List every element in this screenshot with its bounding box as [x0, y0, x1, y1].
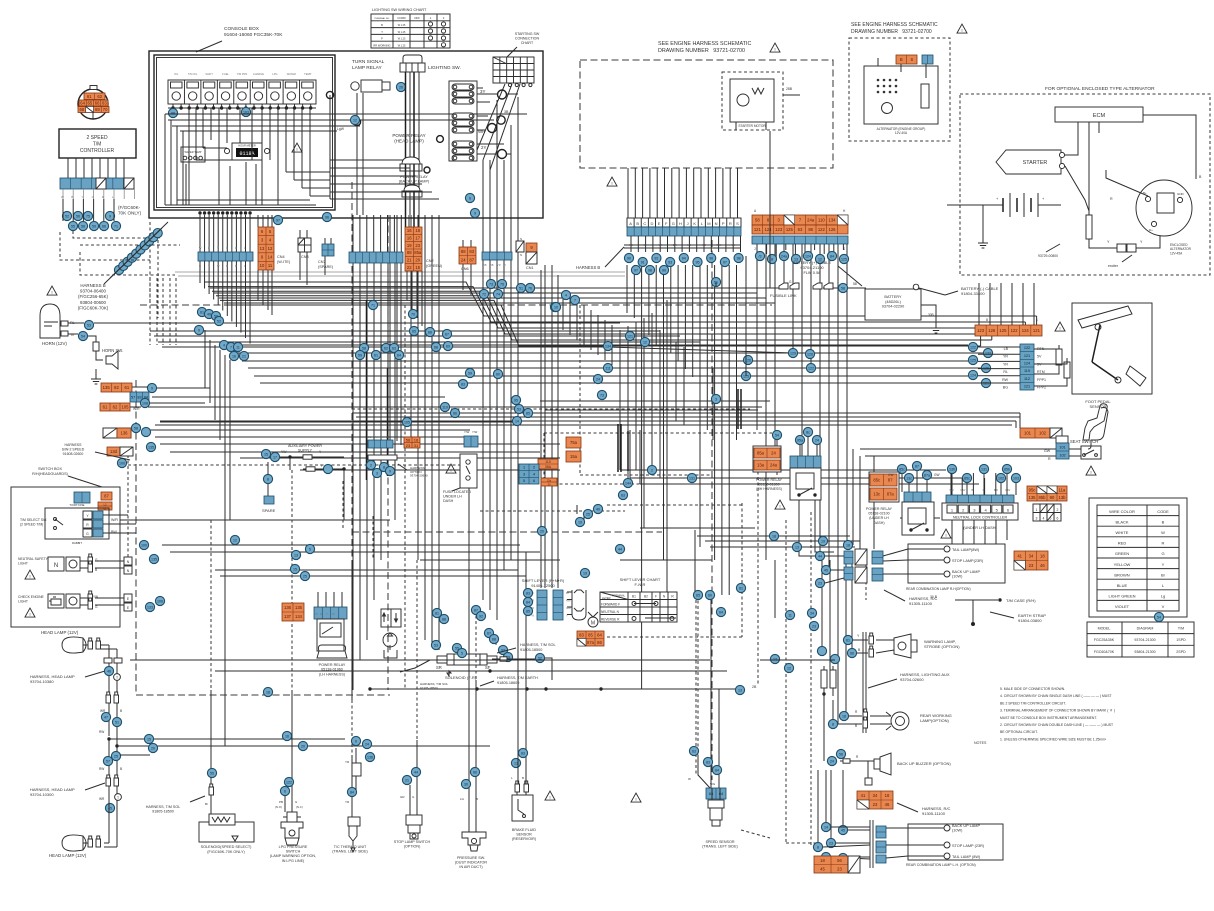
svg-text:2SPD: 2SPD — [1176, 650, 1186, 654]
svg-text:75: 75 — [500, 282, 504, 286]
svg-text:16: 16 — [407, 228, 412, 233]
svg-text:SF: SF — [485, 665, 491, 670]
svg-text:T: T — [116, 676, 118, 680]
svg-text:119: 119 — [442, 405, 448, 409]
svg-text:!: ! — [961, 28, 962, 33]
svg-text:8: 8 — [986, 318, 988, 322]
svg-text:B: B — [522, 776, 524, 780]
svg-text:95a: 95a — [797, 438, 803, 442]
svg-text:96: 96 — [709, 256, 713, 260]
harness RC label 1 — [884, 590, 938, 606]
svg-text:83: 83 — [469, 249, 474, 254]
svg-text:E: E — [658, 221, 661, 226]
power relay LH2 — [866, 492, 934, 535]
svg-text:9: 9 — [198, 328, 200, 332]
svg-text:30B: 30B — [928, 313, 934, 317]
hydraulic valve — [381, 609, 401, 658]
svg-text:93704-10300: 93704-10300 — [30, 792, 54, 797]
svg-text:25: 25 — [114, 754, 118, 758]
neutral safety light — [18, 554, 132, 579]
svg-text:108: 108 — [142, 401, 148, 405]
svg-text:(2 SPEED T/M): (2 SPEED T/M) — [20, 522, 43, 526]
svg-text:24: 24 — [461, 257, 466, 262]
svg-text:87a: 87a — [924, 473, 930, 477]
svg-text:T/M PRS: T/M PRS — [237, 72, 248, 76]
power relay RH orange — [753, 446, 781, 472]
svg-text:10: 10 — [260, 263, 265, 268]
svg-text:CONSOLE BOX: CONSOLE BOX — [224, 26, 260, 32]
svg-text:N: N — [54, 563, 58, 569]
head lamp wires top — [100, 645, 122, 745]
svg-text:18: 18 — [885, 793, 890, 798]
svg-text:91: 91 — [641, 260, 645, 264]
svg-text:24: 24 — [596, 377, 600, 381]
svg-text:87: 87 — [474, 608, 478, 612]
option strip — [366, 435, 397, 478]
svg-text:85c: 85c — [964, 476, 970, 480]
ECM box — [1055, 107, 1143, 122]
svg-text:58: 58 — [853, 282, 857, 286]
svg-text:!: ! — [611, 181, 612, 186]
svg-text:B: B — [900, 57, 903, 62]
svg-text:14: 14 — [268, 255, 273, 260]
svg-text:97: 97 — [276, 218, 280, 222]
CN4 white connector — [258, 215, 291, 315]
dashed region lines left — [60, 222, 175, 318]
svg-text:100: 100 — [141, 543, 147, 547]
svg-text:(TRANS. LEFT SIDE): (TRANS. LEFT SIDE) — [332, 850, 368, 854]
svg-text:84: 84 — [597, 632, 602, 637]
svg-text:B: B — [320, 612, 322, 616]
band jog wires — [204, 282, 1037, 346]
svg-text:SR: SR — [436, 665, 442, 670]
console warning triangle — [292, 143, 302, 152]
svg-text:BACK UP LAMP: BACK UP LAMP — [952, 824, 980, 828]
svg-text:93804-21300: 93804-21300 — [1134, 650, 1155, 654]
svg-text:!: ! — [296, 147, 297, 152]
svg-text:44: 44 — [618, 547, 622, 551]
svg-text:(10W): (10W) — [952, 575, 963, 579]
svg-text:STOP LAMP SWITCH: STOP LAMP SWITCH — [394, 840, 431, 844]
svg-text:62: 62 — [384, 346, 388, 350]
svg-text:13c: 13c — [873, 492, 880, 497]
svg-text:7: 7 — [230, 345, 232, 349]
svg-text:66: 66 — [473, 770, 477, 774]
svg-text:13: 13 — [773, 657, 777, 661]
svg-text:97: 97 — [723, 260, 727, 264]
svg-text:R: R — [1048, 457, 1051, 461]
tm select switch — [20, 503, 136, 545]
svg-text:CN4: CN4 — [277, 255, 285, 259]
svg-text:70: 70 — [103, 107, 108, 112]
power relay LH2 orange — [869, 472, 899, 502]
lpg pressure switch — [270, 777, 316, 862]
svg-text:R: R — [226, 264, 228, 268]
svg-text:TEMP: TEMP — [304, 72, 311, 76]
svg-text:56: 56 — [839, 752, 843, 756]
svg-text:90: 90 — [1050, 495, 1055, 500]
svg-text:3Y: 3Y — [480, 89, 485, 94]
neutral lock nodes — [947, 464, 1020, 495]
svg-text:12: 12 — [353, 118, 357, 122]
svg-text:58: 58 — [134, 426, 138, 430]
svg-text:TO/RT/ONE: TO/RT/ONE — [69, 503, 84, 507]
svg-text:66: 66 — [453, 411, 457, 415]
lighting sw heavy pair — [367, 72, 415, 480]
node cluster bottom mid — [362, 605, 498, 748]
svg-text:23: 23 — [1029, 563, 1034, 568]
fpp node column — [968, 342, 992, 387]
svg-text:HEAD LAMP (12V): HEAD LAMP (12V) — [49, 853, 87, 858]
svg-text:18: 18 — [772, 534, 776, 538]
battery plus cable text — [793, 260, 862, 286]
svg-text:66: 66 — [428, 330, 432, 334]
svg-text:46: 46 — [885, 802, 890, 807]
svg-text:12V-45A: 12V-45A — [1170, 251, 1183, 255]
svg-text:HARNESS: HARNESS — [65, 443, 83, 447]
svg-text:!: ! — [774, 47, 775, 52]
svg-text:73: 73 — [489, 282, 493, 286]
svg-text:24a: 24a — [770, 463, 778, 468]
svg-text:93704-10380: 93704-10380 — [30, 679, 54, 684]
svg-text:STROBE (OPTION): STROBE (OPTION) — [924, 644, 960, 649]
svg-text:FGC60&70K: FGC60&70K — [1094, 650, 1115, 654]
svg-text:24: 24 — [365, 742, 369, 746]
svg-text:65: 65 — [412, 329, 416, 333]
fuse located — [443, 454, 477, 503]
wire labels under strip — [61, 189, 134, 199]
2 speed T/M controller — [59, 129, 136, 158]
svg-text:HORN (12V): HORN (12V) — [42, 341, 67, 346]
svg-text:69: 69 — [446, 344, 450, 348]
svg-text:83: 83 — [706, 760, 710, 764]
svg-text:126: 126 — [829, 227, 837, 232]
svg-text:24: 24 — [830, 759, 834, 763]
turn relay verticals — [356, 93, 358, 215]
svg-text:ECM: ECM — [1093, 113, 1106, 119]
svg-text:61: 61 — [846, 638, 850, 642]
svg-text:YR: YR — [1003, 362, 1008, 366]
svg-text:58: 58 — [362, 346, 366, 350]
svg-text:85: 85 — [526, 609, 530, 613]
svg-text:FUSE LOCATED: FUSE LOCATED — [443, 490, 471, 494]
svg-text:58: 58 — [81, 224, 85, 228]
svg-text:R: R — [1162, 541, 1165, 546]
svg-text:106: 106 — [157, 599, 163, 603]
svg-text:GW: GW — [1044, 449, 1051, 453]
svg-text:GW: GW — [934, 473, 940, 477]
svg-text:135: 135 — [295, 605, 303, 610]
solenoid FR — [400, 654, 497, 690]
svg-text:CN8: CN8 — [301, 255, 309, 259]
svg-text:61: 61 — [200, 310, 204, 314]
svg-text:(LH HARNESS): (LH HARNESS) — [319, 672, 345, 676]
svg-text:GW: GW — [960, 488, 965, 492]
svg-text:16: 16 — [407, 236, 412, 241]
pressure switch — [455, 767, 488, 869]
svg-text:(F/GC256-65K): (F/GC256-65K) — [78, 294, 109, 299]
harness B text — [47, 283, 109, 310]
center tangle verticals — [563, 292, 741, 612]
svg-text:5V: 5V — [1037, 355, 1042, 359]
svg-text:34: 34 — [873, 793, 878, 798]
harness RC label 2 — [897, 803, 951, 816]
seat gw wires — [853, 449, 860, 470]
svg-text:IN LPG LINE): IN LPG LINE) — [282, 859, 305, 863]
svg-text:84: 84 — [830, 254, 834, 258]
neutral lock controller — [941, 495, 1018, 538]
triangle near harness B — [607, 177, 617, 186]
fusible link — [770, 131, 857, 298]
svg-text:16: 16 — [285, 734, 289, 738]
svg-text:112: 112 — [1024, 377, 1030, 381]
svg-text:STARTER: STARTER — [1023, 160, 1048, 166]
svg-text:HARNESS B: HARNESS B — [80, 283, 105, 288]
seat feed wires — [155, 401, 1056, 456]
svg-text:14: 14 — [515, 419, 519, 423]
svg-text:84: 84 — [526, 600, 530, 604]
svg-text:LAMP RELAY: LAMP RELAY — [352, 65, 382, 71]
svg-text:DASH: DASH — [443, 499, 454, 503]
svg-text:DRAWING NUMBER 93721-02700: DRAWING NUMBER 93721-02700 — [851, 29, 932, 35]
svg-text:Y: Y — [326, 612, 328, 616]
svg-text:61: 61 — [103, 405, 108, 410]
svg-text:83: 83 — [526, 591, 530, 595]
svg-text:11: 11 — [236, 345, 240, 349]
svg-text:75: 75 — [86, 214, 90, 218]
svg-text:13: 13 — [294, 553, 298, 557]
svg-text:LIGHTING SW WIRING CHART: LIGHTING SW WIRING CHART — [372, 8, 427, 12]
svg-text:Y: Y — [217, 246, 219, 250]
svg-text:88: 88 — [461, 249, 466, 254]
svg-text:93704-02290: 93704-02290 — [882, 305, 904, 309]
check engine nodes — [155, 596, 164, 605]
power relay RH — [756, 456, 821, 509]
console inner box — [154, 55, 335, 210]
svg-text:SOLENOID (F-R): SOLENOID (F-R) — [445, 675, 477, 680]
foot pedal box — [1072, 303, 1152, 409]
svg-text:G: G — [226, 246, 228, 250]
svg-text:WHITE: WHITE — [1116, 530, 1129, 535]
svg-text:16: 16 — [232, 354, 236, 358]
svg-text:51: 51 — [519, 286, 523, 290]
svg-text:exciter: exciter — [1108, 264, 1119, 268]
svg-text:61: 61 — [87, 94, 92, 99]
svg-text:2: 2 — [651, 468, 653, 472]
svg-text:FUEL: FUEL — [222, 72, 229, 76]
svg-text:13c: 13c — [906, 476, 912, 480]
contact circle 2Y — [477, 145, 507, 159]
svg-text:BB: BB — [490, 263, 494, 267]
svg-text:83: 83 — [579, 632, 584, 637]
battery feed wire — [210, 287, 866, 289]
svg-text:!: ! — [29, 574, 30, 579]
svg-text:97: 97 — [634, 268, 638, 272]
svg-text:91804-03800: 91804-03800 — [1018, 618, 1042, 623]
svg-text:93704-20600: 93704-20600 — [410, 474, 428, 478]
svg-text:105: 105 — [122, 405, 130, 410]
svg-text:4: 4 — [565, 293, 567, 297]
svg-text:15: 15 — [415, 265, 420, 270]
svg-text:REAR COMBINATION LAMP R-H(OPTI: REAR COMBINATION LAMP R-H(OPTION) — [906, 587, 971, 591]
svg-text:85: 85 — [526, 411, 530, 415]
svg-text:CN2: CN2 — [426, 259, 434, 263]
svg-text:66: 66 — [102, 224, 106, 228]
rear comb LH orange top — [857, 791, 893, 809]
back up buzzer — [827, 753, 951, 785]
svg-text:133: 133 — [147, 605, 153, 609]
svg-text:DASH): DASH) — [873, 521, 884, 525]
svg-text:9: 9 — [109, 214, 111, 218]
svg-text:61: 61 — [374, 353, 378, 357]
svg-text:TAIL LAMP (8W): TAIL LAMP (8W) — [952, 855, 981, 859]
svg-text:DRAWING NUMBER 93721-02700: DRAWING NUMBER 93721-02700 — [658, 48, 745, 54]
svg-text:WATER TEMP: WATER TEMP — [185, 150, 202, 154]
svg-text:54: 54 — [1157, 615, 1161, 619]
svg-text:111: 111 — [605, 366, 610, 370]
svg-text:121: 121 — [627, 334, 633, 338]
left fuse cells2 — [404, 437, 420, 448]
svg-text:W: W — [61, 195, 64, 199]
svg-text:SEE ENGINE HARNESS SCHEMATIC: SEE ENGINE HARNESS SCHEMATIC — [851, 22, 938, 28]
svg-text:135: 135 — [1029, 495, 1037, 500]
battery symbol — [978, 193, 1061, 248]
svg-text:B2: B2 — [644, 595, 648, 599]
svg-text:124: 124 — [765, 227, 773, 232]
node cluster CN1 — [516, 283, 525, 292]
svg-text:122: 122 — [1024, 346, 1030, 350]
battery minus cable — [913, 284, 998, 333]
power relay LH — [282, 603, 347, 676]
svg-text:T/M: T/M — [1178, 627, 1184, 631]
svg-text:POWER RELAY: POWER RELAY — [392, 133, 425, 138]
svg-text:HARNESS, T/M SOL: HARNESS, T/M SOL — [146, 805, 181, 809]
svg-text:19: 19 — [407, 243, 412, 248]
svg-text:Y/W: Y/W — [464, 430, 470, 434]
svg-text:05138-01800: 05138-01800 — [758, 483, 779, 487]
svg-text:05138-02100: 05138-02100 — [868, 512, 889, 516]
svg-text:T/M OIL: T/M OIL — [188, 72, 198, 76]
svg-text:(BACK UP LAMP): (BACK UP LAMP) — [399, 180, 430, 184]
svg-text:B: B — [504, 263, 506, 267]
svg-text:68: 68 — [80, 107, 85, 112]
svg-text:46: 46 — [107, 669, 111, 673]
svg-text:S/W-2 SPEED: S/W-2 SPEED — [62, 447, 85, 451]
svg-text:30 B: 30 B — [930, 595, 938, 599]
svg-text:8c: 8c — [806, 430, 810, 434]
svg-text:91608-02600: 91608-02600 — [63, 452, 84, 456]
svg-text:91804-33400: 91804-33400 — [961, 291, 985, 296]
svg-text:8: 8 — [771, 257, 773, 261]
svg-text:105: 105 — [404, 420, 410, 424]
shift lever chart — [600, 577, 677, 622]
svg-text:19: 19 — [821, 539, 825, 543]
svg-text:75a: 75a — [570, 440, 578, 445]
alternator engine group box — [849, 38, 950, 141]
svg-text:66: 66 — [850, 651, 854, 655]
bundle C verticals — [390, 72, 439, 650]
svg-text:63: 63 — [798, 227, 803, 232]
svg-text:119: 119 — [1024, 369, 1030, 373]
svg-text:M: M — [707, 221, 710, 226]
svg-text:SHIFT: SHIFT — [205, 72, 213, 76]
svg-text:P: P — [381, 37, 383, 41]
left orange blocks — [100, 383, 149, 456]
svg-text:HARNESS, T/M SOL: HARNESS, T/M SOL — [520, 643, 556, 647]
svg-text:9: 9 — [151, 386, 153, 390]
contact circle WR — [478, 110, 509, 134]
svg-text:B: B — [1162, 519, 1165, 524]
svg-text:3. TERMINAL ARRANGEMENT OF CON: 3. TERMINAL ARRANGEMENT OF CONNECTOR SHO… — [1000, 709, 1115, 713]
svg-text:G: G — [86, 532, 89, 536]
svg-text:68: 68 — [492, 637, 496, 641]
seat switch — [1044, 404, 1108, 475]
svg-text:99: 99 — [662, 268, 666, 272]
svg-text:51: 51 — [115, 720, 119, 724]
strip B blue — [349, 215, 403, 263]
svg-text:21: 21 — [407, 258, 412, 263]
svg-text:(GREEN): (GREEN) — [426, 264, 443, 268]
svg-text:60: 60 — [496, 372, 500, 376]
svg-text:20: 20 — [301, 744, 305, 748]
svg-text:13a: 13a — [757, 463, 765, 468]
svg-text:129: 129 — [790, 351, 796, 355]
svg-text:4: 4 — [1043, 517, 1045, 521]
svg-text:CODE: CODE — [1157, 509, 1169, 514]
svg-text:135: 135 — [148, 445, 154, 449]
warning triangle bottom 2 — [631, 793, 641, 802]
svg-text:66: 66 — [95, 101, 100, 106]
svg-text:(SPARE): (SPARE) — [318, 265, 334, 269]
water temp box — [181, 147, 205, 162]
right lamp feeders — [818, 456, 874, 847]
svg-text:4: 4 — [533, 472, 535, 476]
strip A nodes — [197, 307, 206, 316]
lighting sw wiring chart — [371, 8, 450, 48]
svg-text:GW: GW — [1005, 488, 1010, 492]
svg-text:87a: 87a — [887, 492, 895, 497]
svg-text:K: K — [693, 221, 696, 226]
svg-text:YB: YB — [314, 612, 318, 616]
svg-text:24: 24 — [771, 451, 776, 456]
svg-text:94: 94 — [682, 256, 686, 260]
svg-text:Br: Br — [1161, 572, 1166, 577]
svg-text:64: 64 — [397, 353, 401, 357]
svg-text:15a: 15a — [547, 480, 552, 483]
svg-text:64: 64 — [80, 101, 85, 106]
svg-text:C: C — [643, 221, 646, 226]
left center horizontals — [148, 397, 762, 470]
svg-text:49: 49 — [207, 312, 211, 316]
svg-text:BG: BG — [1003, 386, 1008, 390]
svg-text:SUPPLY: SUPPLY — [298, 449, 313, 453]
rear comb RH connectors — [815, 540, 908, 587]
strip A blue — [198, 211, 253, 268]
svg-text:2Y: 2Y — [481, 145, 486, 150]
svg-text:8: 8 — [817, 845, 819, 849]
harness B blue row — [627, 227, 741, 236]
svg-text:23: 23 — [415, 243, 420, 248]
svg-text:BACK UP LAMP: BACK UP LAMP — [952, 570, 980, 574]
svg-text:125: 125 — [970, 358, 976, 362]
diagonal node chain — [73, 222, 180, 284]
svg-text:(OPTION): (OPTION) — [404, 845, 421, 849]
turn signal lamp relay — [351, 59, 390, 92]
svg-text:137: 137 — [284, 614, 292, 619]
svg-text:13d: 13d — [110, 449, 118, 454]
svg-text:83: 83 — [137, 395, 141, 399]
svg-text:8: 8 — [267, 477, 269, 481]
